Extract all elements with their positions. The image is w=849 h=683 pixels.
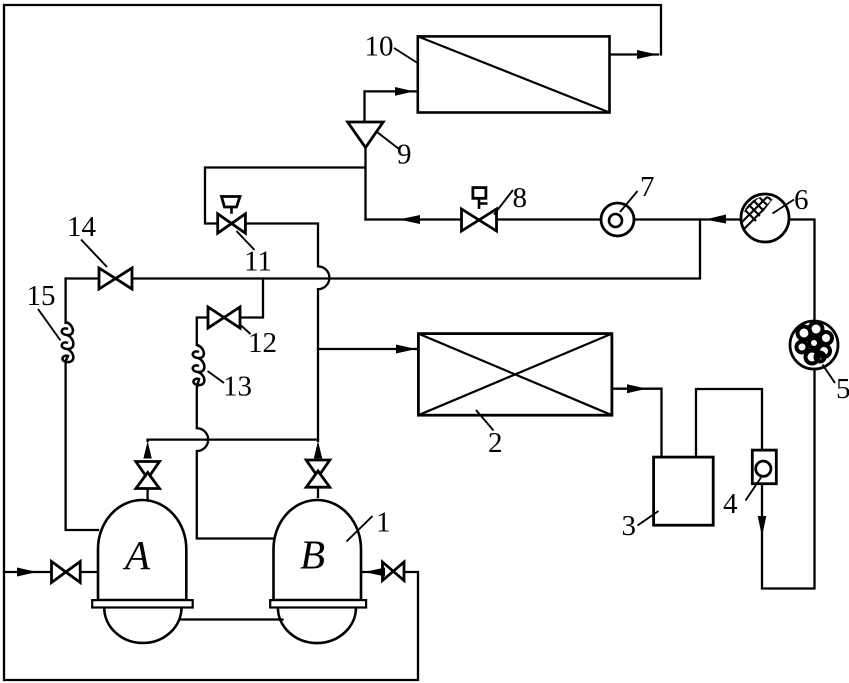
svg-text:A: A bbox=[122, 532, 151, 578]
svg-text:15: 15 bbox=[27, 280, 56, 312]
svg-text:14: 14 bbox=[67, 211, 97, 243]
svg-text:2: 2 bbox=[488, 427, 503, 459]
svg-text:5: 5 bbox=[836, 373, 849, 405]
svg-text:1: 1 bbox=[376, 507, 391, 539]
svg-text:11: 11 bbox=[244, 246, 272, 278]
svg-text:3: 3 bbox=[622, 510, 637, 542]
svg-text:6: 6 bbox=[794, 184, 809, 216]
svg-text:8: 8 bbox=[513, 182, 528, 214]
svg-text:4: 4 bbox=[723, 488, 738, 520]
svg-text:12: 12 bbox=[248, 327, 277, 359]
svg-text:7: 7 bbox=[640, 171, 655, 203]
svg-text:13: 13 bbox=[223, 371, 252, 403]
svg-text:B: B bbox=[300, 532, 325, 578]
svg-text:9: 9 bbox=[397, 139, 412, 171]
svg-text:10: 10 bbox=[365, 31, 394, 63]
